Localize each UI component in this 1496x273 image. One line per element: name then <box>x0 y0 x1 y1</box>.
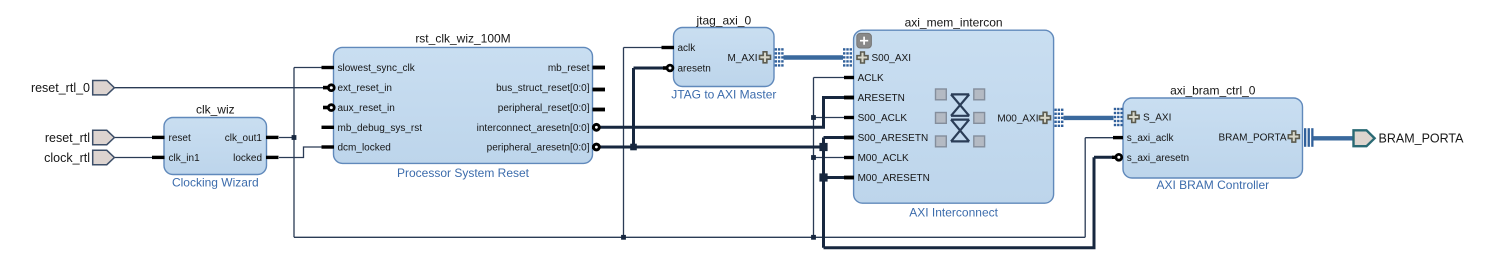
svg-text:dcm_locked: dcm_locked <box>338 143 391 154</box>
svg-text:rst_clk_wiz_100M: rst_clk_wiz_100M <box>415 31 510 45</box>
pin rst dcm_locked <box>322 143 391 154</box>
pin rst peripheral_reset <box>498 103 605 114</box>
pin rst aux_reset_in <box>323 103 395 114</box>
comb jtag M_AXI <box>775 48 784 66</box>
svg-text:bus_struct_reset[0:0]: bus_struct_reset[0:0] <box>496 83 590 94</box>
port BRAM_PORTA external <box>1354 130 1465 146</box>
svg-text:reset_rtl: reset_rtl <box>45 131 90 145</box>
wire peripheral_aresetn net <box>600 68 1113 248</box>
pin intercon M00_ARESETN <box>844 173 930 184</box>
svg-text:AXI Interconnect: AXI Interconnect <box>909 206 998 220</box>
pin intercon M00_AXI interface <box>997 112 1050 124</box>
pin rst ext_reset_in <box>323 83 392 94</box>
wire interconnect_aresetn net <box>600 98 845 128</box>
pin intercon ARESETN <box>844 93 905 104</box>
comb bram BRAM_PORTA bars <box>1304 128 1314 147</box>
svg-text:axi_bram_ctrl_0: axi_bram_ctrl_0 <box>1170 83 1256 97</box>
junction peripheral_aresetn at M00_ARESETN <box>819 173 827 181</box>
pin rst bus_struct_reset <box>496 83 605 94</box>
svg-text:BRAM_PORTA: BRAM_PORTA <box>1219 133 1287 144</box>
svg-text:M00_ACLK: M00_ACLK <box>858 153 909 164</box>
pin rst interconnect_aresetn <box>477 123 600 134</box>
pin clk_wiz locked <box>233 153 278 164</box>
junction clk net bottom rail <box>811 235 816 240</box>
svg-text:peripheral_reset[0:0]: peripheral_reset[0:0] <box>498 103 590 114</box>
svg-text:ext_reset_in: ext_reset_in <box>338 83 392 94</box>
svg-text:Processor System Reset: Processor System Reset <box>397 166 530 180</box>
svg-text:aresetn: aresetn <box>678 64 711 75</box>
svg-text:M_AXI: M_AXI <box>727 53 757 64</box>
svg-text:S00_ACLK: S00_ACLK <box>858 113 908 124</box>
pin bram S_AXI interface <box>1128 112 1171 124</box>
wire clk_out1 clock net trunk <box>279 48 1115 238</box>
junction peripheral_aresetn main column <box>819 143 827 151</box>
svg-text:BRAM_PORTA: BRAM_PORTA <box>1379 131 1465 145</box>
svg-text:mb_debug_sys_rst: mb_debug_sys_rst <box>338 123 423 134</box>
svg-text:s_axi_aresetn: s_axi_aresetn <box>1127 153 1189 164</box>
svg-text:peripheral_aresetn[0:0]: peripheral_aresetn[0:0] <box>487 143 590 154</box>
wire locked to dcm_locked <box>279 147 326 158</box>
svg-text:aux_reset_in: aux_reset_in <box>338 103 395 114</box>
pin bram s_axi_aresetn <box>1112 153 1189 164</box>
svg-text:axi_mem_intercon: axi_mem_intercon <box>905 16 1003 30</box>
pin rst mb_debug_sys_rst <box>322 123 423 134</box>
svg-text:jtag_axi_0: jtag_axi_0 <box>695 13 751 27</box>
axi bus BRAM_PORTA external <box>1313 136 1353 140</box>
pin intercon S00_AXI interface <box>857 52 911 64</box>
svg-text:slowest_sync_clk: slowest_sync_clk <box>338 63 416 74</box>
svg-text:S_AXI: S_AXI <box>1143 113 1171 124</box>
wire reset_rtl_0 to ext_reset_in <box>115 87 326 89</box>
svg-text:interconnect_aresetn[0:0]: interconnect_aresetn[0:0] <box>477 123 590 134</box>
block jtag_axi_0 <box>671 13 776 101</box>
svg-text:s_axi_aclk: s_axi_aclk <box>1127 133 1175 144</box>
axi bus M_AXI to S00_AXI <box>784 55 844 59</box>
svg-text:mb_reset: mb_reset <box>548 63 590 74</box>
pin intercon S00_ACLK <box>844 113 907 124</box>
port reset_rtl_0 <box>31 81 114 96</box>
crossbar icon axi_mem_intercon <box>936 89 985 147</box>
port clock_rtl <box>44 150 114 165</box>
svg-text:reset_rtl_0: reset_rtl_0 <box>31 81 90 95</box>
pin intercon ACLK <box>844 73 884 84</box>
block clk_wiz <box>164 103 267 190</box>
svg-text:ARESETN: ARESETN <box>858 93 905 104</box>
svg-text:S00_AXI: S00_AXI <box>872 53 911 64</box>
junction clk net at S00_ACLK <box>811 115 816 120</box>
pin rst slowest_sync_clk <box>322 63 416 74</box>
junction peripheral_aresetn at jtag aresetn column <box>630 144 637 151</box>
pin rst mb_reset <box>548 63 605 74</box>
svg-text:AXI BRAM Controller: AXI BRAM Controller <box>1156 178 1269 192</box>
junction clk net at M00_ACLK <box>811 155 816 160</box>
expand button axi_mem_intercon <box>857 33 872 48</box>
junction clk net at jtag aclk column <box>621 235 626 240</box>
svg-text:clk_wiz: clk_wiz <box>196 103 235 117</box>
pin clk_wiz clk_in1 <box>152 153 200 164</box>
svg-text:reset: reset <box>169 133 191 144</box>
pin jtag aresetn <box>663 64 711 75</box>
pin clk_wiz clk_out1 <box>225 133 279 144</box>
pin rst peripheral_aresetn <box>487 143 600 154</box>
junction clk net at clk_out1 <box>292 135 297 140</box>
svg-text:aclk: aclk <box>678 43 697 54</box>
pin bram s_axi_aclk <box>1113 133 1174 144</box>
pin jtag aclk <box>662 43 697 54</box>
comb bram S_AXI <box>1114 108 1123 126</box>
wire reset_rtl to clk_wiz reset <box>115 137 153 139</box>
svg-text:clk_out1: clk_out1 <box>225 133 263 144</box>
svg-text:locked: locked <box>233 153 262 164</box>
svg-text:clk_in1: clk_in1 <box>169 153 201 164</box>
pin jtag M_AXI interface <box>727 52 770 64</box>
axi bus M00_AXI to S_AXI <box>1064 116 1114 120</box>
pin intercon S00_ARESETN <box>844 133 928 144</box>
port reset_rtl <box>45 130 115 145</box>
block axi_bram_ctrl_0 <box>1123 83 1303 191</box>
svg-text:JTAG to AXI Master: JTAG to AXI Master <box>671 88 776 102</box>
pin clk_wiz reset <box>152 133 191 144</box>
pin bram BRAM_PORTA interface <box>1219 131 1300 144</box>
wire clock_rtl to clk_in1 <box>115 157 153 159</box>
svg-text:ACLK: ACLK <box>858 73 884 84</box>
pin intercon M00_ACLK <box>844 153 909 164</box>
comb intercon M00_AXI <box>1054 109 1063 127</box>
block rst_clk_wiz_100M <box>334 31 593 180</box>
svg-text:clock_rtl: clock_rtl <box>44 151 90 165</box>
comb intercon S00_AXI <box>843 48 852 66</box>
svg-text:M00_ARESETN: M00_ARESETN <box>858 173 930 184</box>
svg-text:M00_AXI: M00_AXI <box>997 113 1038 124</box>
svg-text:Clocking Wizard: Clocking Wizard <box>172 175 259 189</box>
svg-text:S00_ARESETN: S00_ARESETN <box>858 133 929 144</box>
block axi_mem_intercon <box>854 16 1054 220</box>
